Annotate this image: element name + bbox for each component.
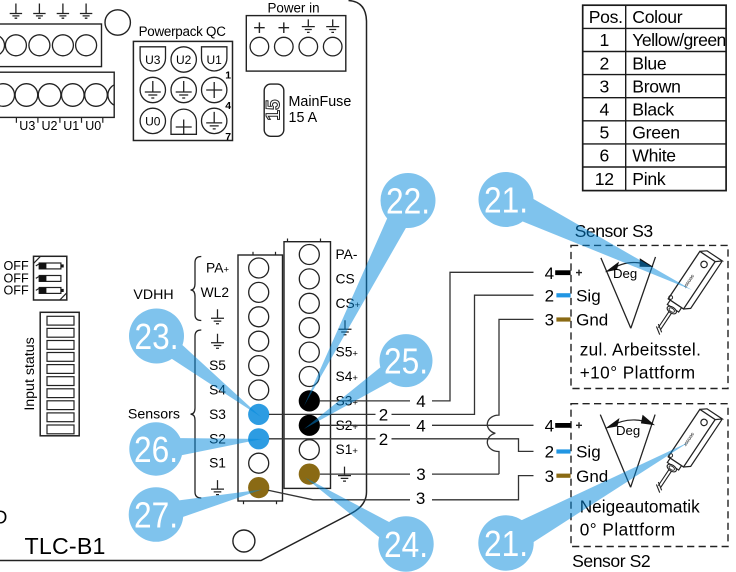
- TB1 pin hole 1: [5, 35, 26, 56]
- brace Sensors group: [191, 330, 202, 498]
- terminal block TB1 (top left): [0, 24, 102, 67]
- connector X1 left strip body: [238, 255, 283, 501]
- svg-text:4: 4: [545, 264, 554, 283]
- TB2 pin hole partial right: [108, 84, 131, 107]
- svg-text:23.: 23.: [135, 316, 179, 357]
- label TLC-B1: [25, 533, 106, 559]
- svg-text:Black: Black: [632, 100, 674, 120]
- svg-text:Green: Green: [632, 123, 679, 143]
- sensor S2 pin label 3 Gnd: [545, 467, 609, 486]
- ground symbol X1 row3: [211, 309, 224, 324]
- svg-text:2: 2: [379, 430, 388, 449]
- wire X2 gnd pin to sensor S3 Gnd (with hop over): [320, 319, 534, 474]
- TB1 pin hole 3: [52, 35, 73, 56]
- callout 26 balloon to pin S2: [129, 422, 262, 475]
- J1 pin number 1: [225, 70, 231, 82]
- svg-text:S5: S5: [209, 358, 226, 373]
- svg-text:15: 15: [263, 99, 284, 121]
- TB1 pin hole (partial): [0, 35, 5, 56]
- Input status LED windows: [47, 316, 74, 434]
- svg-text:Deg: Deg: [616, 423, 640, 438]
- X1 pin S2 (blue): [248, 428, 269, 449]
- svg-text:U0: U0: [145, 115, 161, 129]
- svg-text:White: White: [632, 146, 675, 166]
- sensor S3 pin label 4 +: [545, 264, 582, 283]
- label Sensor S3: [575, 221, 654, 241]
- J1 pin number 4: [225, 100, 231, 112]
- wire S2+ pin to sensor S2 plus: [320, 424, 534, 426]
- wire number label 2 (S3 sig): [379, 406, 388, 425]
- connector X2 right strip body: [284, 242, 331, 489]
- X1 pin gnd3 (brown): [248, 477, 269, 498]
- label Sensors: [128, 407, 180, 423]
- sensor S2 body (tilt sensor): [649, 405, 723, 499]
- TB2 pin hole U0: [85, 84, 108, 107]
- svg-text:VDHH: VDHH: [133, 287, 173, 303]
- svg-text:2: 2: [379, 406, 388, 425]
- X1 pin S1: [249, 453, 269, 473]
- X2 pin S1+: [299, 440, 319, 460]
- sensor S2 angle wedge V: [600, 415, 655, 488]
- Power in label: [267, 1, 319, 16]
- J1 ground pin row3 col3: [202, 108, 227, 133]
- X1/X2 strip top tick marks: [253, 239, 321, 256]
- sensor S3 pin label 3 Gnd: [545, 311, 609, 330]
- ground symbol above TB1 pin 4: [80, 4, 92, 19]
- ground symbol X2 row4: [339, 320, 352, 335]
- X2 pin gnd1: [299, 318, 319, 338]
- Power in ground symbol 1: [302, 19, 315, 32]
- TB2 tick marks: [16, 117, 102, 122]
- svg-text:4: 4: [545, 417, 554, 436]
- sensor S2 pin label 4 +: [545, 417, 582, 436]
- mounting hole top left: [105, 10, 130, 35]
- X2 pin gnd2 (brown): [299, 464, 320, 485]
- label Sensor S2: [572, 551, 650, 571]
- svg-text:3: 3: [599, 76, 609, 96]
- svg-text:U1: U1: [207, 53, 223, 67]
- callout 22 balloon to pin S3+: [304, 173, 436, 406]
- J1 pin U0: [140, 108, 165, 133]
- X1 pin S5: [249, 356, 269, 376]
- svg-text:Deg: Deg: [613, 266, 637, 281]
- sensor S2 dashed box: [571, 404, 728, 547]
- brace VDHH group: [191, 257, 202, 321]
- sensor S2 caption: [580, 497, 700, 540]
- sensor S3 dashed box: [571, 245, 728, 388]
- svg-text:CS: CS: [336, 271, 355, 286]
- TB2 pin hole U2: [38, 84, 61, 107]
- callout 27 balloon to X1 gnd pin: [129, 487, 262, 542]
- svg-text:12: 12: [595, 169, 614, 189]
- Power in pin 4: [323, 37, 342, 56]
- ground symbol X1 row10: [211, 480, 224, 495]
- X2 labels right column: [336, 247, 361, 457]
- ground symbol above TB1 pin 3: [57, 4, 69, 19]
- wire S3+ pin to sensor S3 plus: [320, 272, 534, 401]
- svg-text:21.: 21.: [484, 180, 528, 221]
- svg-text:4: 4: [416, 392, 425, 411]
- svg-text:D: D: [0, 507, 7, 528]
- svg-text:7: 7: [225, 131, 231, 143]
- svg-text:U1: U1: [63, 119, 79, 133]
- sensor S3 caption: [580, 340, 702, 383]
- ground symbol above TB1 pin 2: [33, 4, 45, 19]
- DIP switch SW1 block: [34, 256, 67, 300]
- J1 plus pin row3 col2 (arch): [171, 109, 196, 134]
- wire S3 pin to sensor S3 Sig: [269, 295, 534, 414]
- Power in pin 1: [250, 37, 269, 56]
- svg-text:21.: 21.: [484, 523, 528, 564]
- TB2 pin hole U3: [15, 84, 38, 107]
- ground symbol X1 row4: [211, 334, 224, 349]
- svg-text:U3: U3: [19, 119, 35, 133]
- svg-text:27.: 27.: [134, 495, 178, 536]
- label U2: [42, 119, 58, 133]
- terminal block TB2 (left, U3..U0): [0, 72, 114, 117]
- svg-text:26.: 26.: [134, 429, 178, 470]
- wire number label 4 (S3+): [416, 392, 425, 411]
- X2 pin S3+ (black): [299, 390, 320, 411]
- svg-text:22.: 22.: [386, 181, 430, 222]
- SW1 switch 3: [36, 288, 64, 294]
- label U0: [85, 119, 101, 133]
- svg-text:U2: U2: [42, 119, 58, 133]
- sensor S3 pin label 2 Sig: [545, 287, 601, 306]
- svg-text:Colour: Colour: [632, 7, 682, 27]
- J1 ground pin row2 col1: [140, 77, 165, 102]
- X2 pin S5+: [299, 342, 319, 362]
- svg-text:6: 6: [599, 146, 609, 166]
- X2 pin S2+ (black): [299, 415, 320, 436]
- svg-text:15 A: 15 A: [289, 110, 318, 126]
- svg-text:25.: 25.: [384, 341, 428, 382]
- svg-text:1: 1: [225, 70, 231, 82]
- Power in + mark 1: [254, 22, 265, 33]
- svg-text:4: 4: [416, 416, 425, 435]
- SW1 switch 1: [36, 263, 64, 269]
- J1 ground pin row2 col2: [171, 77, 196, 102]
- svg-text:Sig: Sig: [576, 287, 601, 306]
- X1 strip bottom tick marks: [244, 501, 277, 504]
- fuse label MainFuse 15 A: [289, 94, 352, 126]
- svg-text:Brown: Brown: [632, 76, 680, 96]
- callout 21 (top) balloon to sensor S3: [479, 172, 693, 290]
- svg-text:Input status: Input status: [22, 337, 38, 410]
- label OFF x3: [4, 259, 29, 298]
- X2 pin CS: [299, 269, 319, 289]
- sensor S2 Deg arc with arrowheads: [605, 415, 655, 429]
- X2 pin S4+: [299, 367, 319, 387]
- svg-text:Pos.: Pos.: [589, 7, 623, 27]
- svg-text:OFF: OFF: [4, 284, 29, 298]
- Powerpack QC connector J1 outline: [133, 41, 232, 140]
- X1 labels left column: [201, 261, 230, 471]
- svg-text:Sig: Sig: [576, 443, 601, 462]
- sensor S3 Deg label: [613, 266, 637, 281]
- J1 pin number 7: [225, 131, 231, 143]
- X1 pin S4: [249, 380, 269, 400]
- X1 pin gnd1: [249, 307, 269, 327]
- svg-text:Gnd: Gnd: [576, 311, 608, 330]
- svg-text:Yellow/green: Yellow/green: [632, 30, 726, 50]
- board outline: [0, 1, 367, 561]
- fuse F1 value 15 (rotated): [263, 99, 284, 121]
- svg-text:2: 2: [545, 287, 554, 306]
- partial label D at left edge: [0, 507, 7, 528]
- J1 plus pin row2 col3: [202, 77, 227, 102]
- sensor S2 pin label 2 Sig: [545, 443, 601, 462]
- mounting hole bottom: [233, 530, 255, 552]
- Powerpack QC label: [139, 24, 227, 39]
- svg-text:1: 1: [599, 30, 609, 50]
- svg-text:3: 3: [545, 467, 554, 486]
- svg-text:PA-: PA-: [336, 247, 358, 262]
- label Input status (rotated): [22, 337, 38, 410]
- X1 pin PA+: [249, 258, 269, 278]
- svg-text:2: 2: [545, 443, 554, 462]
- J1 pin U1 (D-shell): [202, 47, 227, 71]
- J1 pin U3 (D-shell): [140, 47, 165, 71]
- SW1 switch 2: [36, 276, 61, 282]
- callout 21 (bottom) balloon to sensor S2: [478, 442, 689, 571]
- svg-text:Blue: Blue: [632, 53, 666, 73]
- wire S2 pin to sensor S2 Sig: [269, 439, 534, 452]
- label U3: [19, 119, 35, 133]
- svg-text:Powerpack QC: Powerpack QC: [139, 24, 227, 39]
- svg-text:TLC-B1: TLC-B1: [25, 533, 106, 559]
- wire colour table: [583, 5, 726, 190]
- sensor S3 Deg arc with arrowheads: [605, 258, 654, 272]
- svg-text:S1: S1: [209, 456, 226, 471]
- svg-text:WL2: WL2: [201, 285, 229, 300]
- X2 pin PA-: [299, 245, 319, 265]
- svg-text:0° Plattform: 0° Plattform: [580, 520, 676, 540]
- svg-text:U0: U0: [85, 119, 101, 133]
- wire number label 3 (S2 gnd): [416, 489, 425, 508]
- wire number label 3 (S3 gnd): [416, 465, 425, 484]
- wire number label 2 (S2 sig): [379, 430, 388, 449]
- label VDHH: [133, 287, 173, 303]
- svg-text:U3: U3: [145, 53, 161, 67]
- svg-text:Sensor S2: Sensor S2: [572, 551, 650, 571]
- sensor S2 Deg label: [616, 423, 640, 438]
- ground symbol above TB1 pin 1: [10, 4, 22, 19]
- X1 pin gnd2: [249, 331, 269, 351]
- svg-text:4: 4: [225, 100, 231, 112]
- sensor S3 angle wedge V: [601, 257, 656, 328]
- callout 25 balloon to pin S2+: [304, 334, 433, 429]
- svg-text:3: 3: [416, 465, 425, 484]
- TB2 pin hole U1: [62, 84, 85, 107]
- svg-text:2: 2: [599, 53, 609, 73]
- svg-text:Sensors: Sensors: [128, 407, 180, 423]
- Input status LED block: [40, 312, 79, 436]
- svg-text:3: 3: [416, 489, 425, 508]
- sensor S3 body (tilt sensor): [649, 247, 723, 341]
- Power in pin 3: [299, 37, 318, 56]
- callout 23 balloon to pin S3: [129, 309, 261, 418]
- svg-text:+10° Plattform: +10° Plattform: [580, 363, 696, 383]
- svg-text:MainFuse: MainFuse: [289, 94, 352, 110]
- svg-text:Pink: Pink: [632, 169, 666, 189]
- fuse F1 body: [264, 84, 284, 136]
- svg-text:U2: U2: [176, 53, 192, 67]
- X2 pin CS+: [299, 293, 319, 313]
- svg-text:S3: S3: [209, 407, 226, 422]
- label U1: [63, 119, 79, 133]
- TB1 pin hole 4: [76, 35, 97, 56]
- wire number label 4 (S2+): [416, 416, 425, 435]
- X1 pin S3 (blue): [248, 404, 269, 425]
- svg-text:5: 5: [599, 123, 609, 143]
- Power in terminal block: [246, 16, 345, 72]
- Power in pin 2: [275, 37, 294, 56]
- svg-text:3: 3: [545, 311, 554, 330]
- Power in + mark 2: [279, 22, 290, 33]
- TB2 pin hole U3': [0, 84, 15, 107]
- svg-text:Power in: Power in: [267, 1, 319, 16]
- callout 24 balloon to X2 gnd pin: [305, 478, 434, 572]
- TB1 pin hole 2: [29, 35, 50, 56]
- svg-text:4: 4: [599, 100, 609, 120]
- Power in ground symbol 2: [326, 19, 339, 32]
- svg-text:24.: 24.: [384, 524, 428, 565]
- svg-text:zul. Arbeitsstel.: zul. Arbeitsstel.: [580, 340, 702, 360]
- J1 pin U2: [171, 47, 196, 72]
- ground symbol X2 row10: [338, 467, 351, 482]
- X1 pin WL2: [249, 282, 269, 302]
- wire X1 gnd pin to sensor S2 Gnd: [268, 476, 533, 500]
